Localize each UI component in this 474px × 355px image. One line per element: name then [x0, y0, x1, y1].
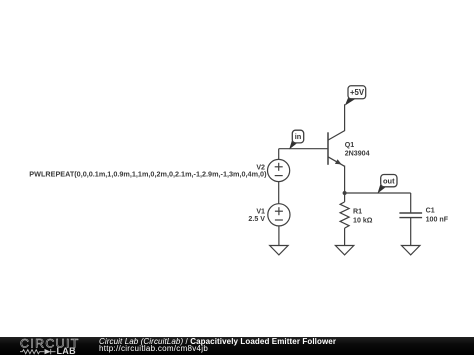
svg-text:in: in [295, 132, 302, 141]
svg-text:LAB: LAB [57, 346, 77, 355]
svg-text:2.5 V: 2.5 V [248, 215, 265, 223]
svg-text:+5V: +5V [350, 88, 365, 97]
svg-text:C1: C1 [426, 206, 435, 214]
svg-text:2N3904: 2N3904 [345, 150, 370, 158]
svg-text:out: out [383, 176, 395, 185]
svg-text:10 kΩ: 10 kΩ [353, 216, 373, 224]
svg-text:Q1: Q1 [345, 141, 355, 149]
svg-text:PWLREPEAT(0,0,0.1m,1,0.9m,1,1m: PWLREPEAT(0,0,0.1m,1,0.9m,1,1m,0,2m,0,2.… [29, 170, 267, 179]
svg-text:100 nF: 100 nF [426, 216, 449, 224]
svg-text:R1: R1 [353, 207, 362, 215]
